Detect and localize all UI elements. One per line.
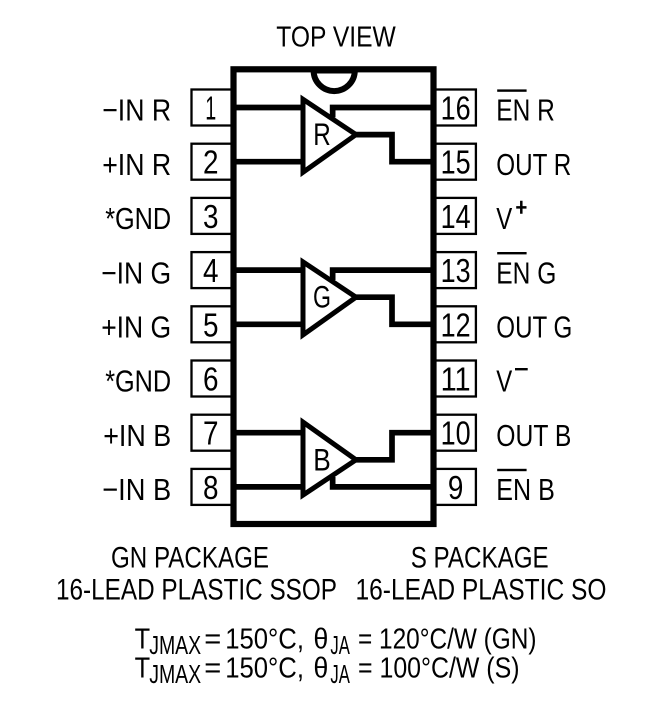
svg-text:T: T [135, 623, 151, 655]
wire EN G (enable) with stub into op-amp G [333, 270, 434, 280]
pin 6 box [192, 361, 234, 397]
svg-text:OUT R: OUT R [496, 147, 571, 182]
svg-text:15: 15 [441, 144, 471, 181]
pin 7 box [192, 415, 234, 451]
svg-text:V: V [496, 364, 512, 399]
svg-text:14: 14 [441, 198, 471, 235]
pin 9 box [434, 469, 476, 505]
svg-text:13: 13 [441, 252, 471, 289]
svg-text:8: 8 [203, 469, 219, 506]
svg-text:7: 7 [203, 415, 219, 452]
svg-text:JMAX: JMAX [149, 630, 201, 660]
wire EN B (enable) with stub into op-amp B [333, 477, 434, 487]
svg-text:EN B: EN B [496, 472, 555, 507]
pin 16 box [434, 90, 476, 126]
svg-text:+IN B: +IN B [103, 418, 171, 453]
wire pin input top to op-amp G [234, 267, 306, 273]
pin 4 box [192, 252, 234, 288]
svg-text:1: 1 [205, 90, 216, 127]
svg-text:=: = [204, 623, 221, 655]
wire OUT G from op-amp G apex with jog [356, 297, 434, 324]
svg-text:4: 4 [203, 252, 219, 289]
svg-text:G: G [313, 279, 331, 315]
wire pin input top to op-amp B [234, 430, 306, 436]
svg-text:16-LEAD PLASTIC SSOP: 16-LEAD PLASTIC SSOP [56, 574, 337, 607]
op-amp G (triangle) [303, 262, 356, 335]
svg-text:= 100°C/W (S): = 100°C/W (S) [358, 652, 520, 684]
pin 2 box [192, 144, 234, 180]
pin 10 box [434, 415, 476, 451]
overbar of EN (EN G) [497, 252, 526, 254]
svg-text:−IN G: −IN G [101, 255, 171, 290]
pin 15 box [434, 144, 476, 180]
svg-text:TOP VIEW: TOP VIEW [276, 22, 396, 54]
overbar of EN (EN B) [497, 469, 526, 471]
svg-text:GN PACKAGE: GN PACKAGE [111, 542, 269, 575]
svg-text:θ: θ [314, 652, 329, 684]
svg-text:θ: θ [314, 623, 329, 655]
svg-text:JMAX: JMAX [149, 659, 201, 689]
svg-text:16-LEAD PLASTIC SO: 16-LEAD PLASTIC SO [356, 574, 607, 607]
superscript − of V− [515, 368, 528, 370]
svg-text:*GND: *GND [105, 201, 171, 236]
wire EN R (enable) with stub into op-amp R [333, 108, 434, 118]
svg-text:150°C,: 150°C, [225, 652, 304, 684]
svg-text:EN G: EN G [496, 255, 556, 290]
svg-text:6: 6 [203, 361, 219, 398]
svg-text:= 120°C/W (GN): = 120°C/W (GN) [358, 623, 537, 655]
op-amp R (triangle) [303, 99, 356, 172]
svg-text:3: 3 [203, 198, 219, 235]
wire pin input bottom to op-amp B [234, 484, 306, 490]
svg-text:B: B [313, 441, 331, 477]
wire OUT R from op-amp R apex with jog [356, 135, 434, 162]
pin 5 box [192, 306, 234, 342]
svg-text:+IN G: +IN G [101, 310, 171, 345]
pin 1 box [192, 90, 234, 126]
svg-text:R: R [313, 116, 331, 152]
pin 11 box [434, 361, 476, 397]
wire pin input bottom to op-amp R [234, 159, 306, 165]
wire pin input bottom to op-amp G [234, 321, 306, 327]
pin 3 box [192, 198, 234, 234]
svg-text:11: 11 [441, 361, 471, 398]
value label TJMAX = 150°C, θJA = 120°C/W (GN) [135, 623, 537, 660]
svg-text:OUT G: OUT G [496, 310, 572, 345]
svg-text:9: 9 [448, 469, 464, 506]
svg-text:T: T [135, 652, 151, 684]
svg-text:OUT B: OUT B [496, 418, 571, 453]
svg-text:2: 2 [203, 144, 219, 181]
value label TJMAX = 150°C, θJA = 100°C/W (S) [135, 652, 520, 689]
svg-text:*GND: *GND [105, 364, 171, 399]
wire pin input top to op-amp R [234, 105, 306, 111]
svg-text:−IN B: −IN B [102, 472, 171, 507]
pin 12 box [434, 306, 476, 342]
pin-1 index notch (semicircle) [314, 71, 355, 92]
pin 14 box [434, 198, 476, 234]
superscript + of V+ [516, 201, 526, 214]
svg-text:EN R: EN R [496, 93, 555, 128]
svg-text:JA: JA [330, 659, 350, 689]
svg-text:S PACKAGE: S PACKAGE [411, 542, 549, 575]
pin 8 box [192, 469, 234, 505]
svg-text:V: V [496, 201, 512, 236]
overbar of EN (EN R) [497, 89, 526, 91]
svg-text:+IN R: +IN R [102, 147, 171, 182]
svg-text:−IN R: −IN R [102, 93, 171, 128]
svg-text:16: 16 [441, 90, 471, 127]
svg-text:150°C,: 150°C, [225, 623, 304, 655]
svg-text:=: = [204, 652, 221, 684]
IC package outline U1 (16-lead, top view) [234, 69, 434, 524]
svg-text:JA: JA [330, 630, 350, 660]
svg-text:12: 12 [441, 306, 471, 343]
svg-text:10: 10 [441, 415, 471, 452]
svg-text:5: 5 [203, 306, 219, 343]
wire OUT B from op-amp B apex with jog [356, 433, 434, 460]
pin 13 box [434, 252, 476, 288]
op-amp B (triangle) [303, 422, 356, 495]
